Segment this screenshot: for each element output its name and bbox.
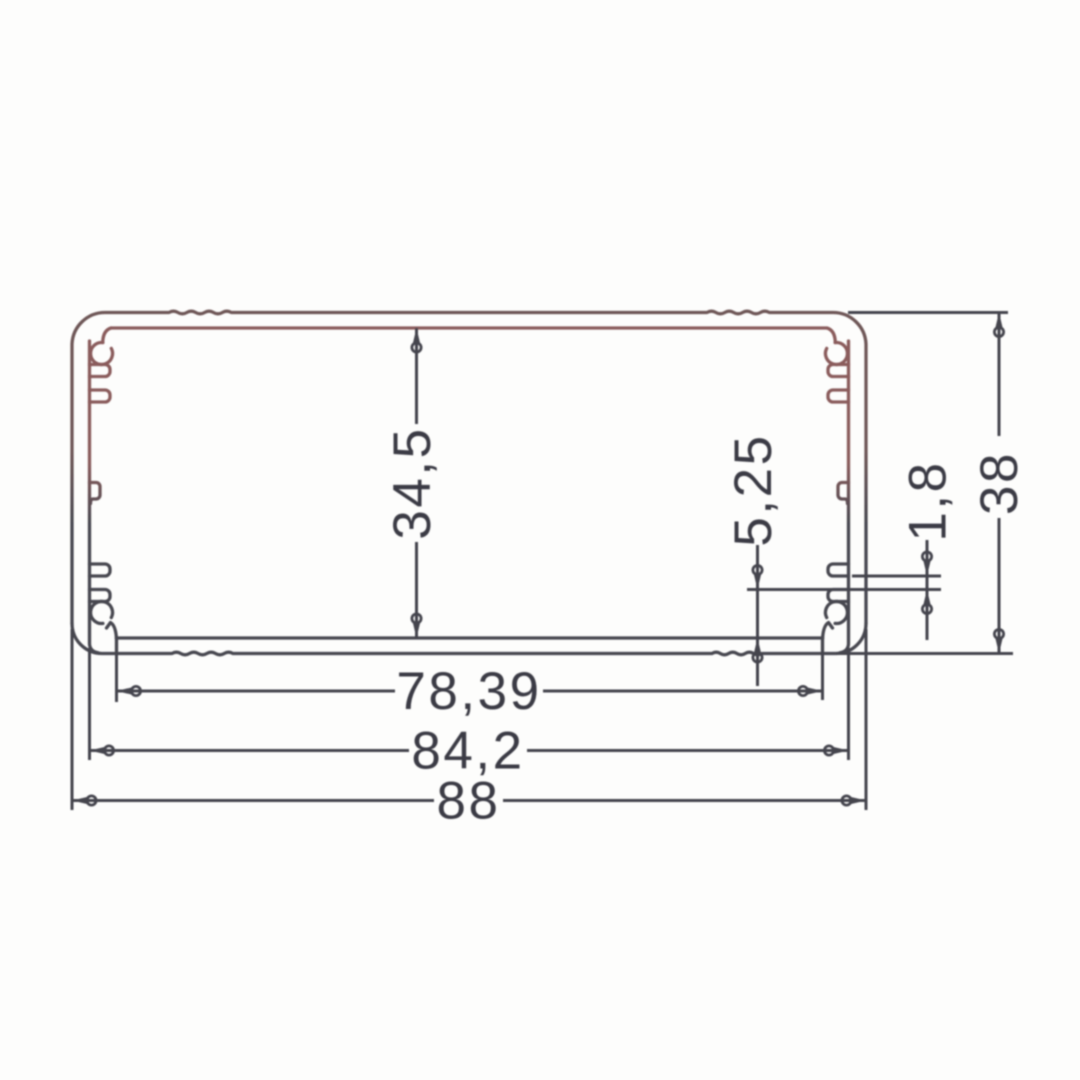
svg-text:5,25: 5,25: [724, 433, 783, 546]
svg-text:34,5: 34,5: [383, 426, 442, 539]
svg-text:78,39: 78,39: [396, 662, 541, 721]
svg-text:1,8: 1,8: [899, 460, 958, 541]
svg-text:38: 38: [970, 451, 1029, 515]
svg-text:88: 88: [437, 772, 501, 831]
